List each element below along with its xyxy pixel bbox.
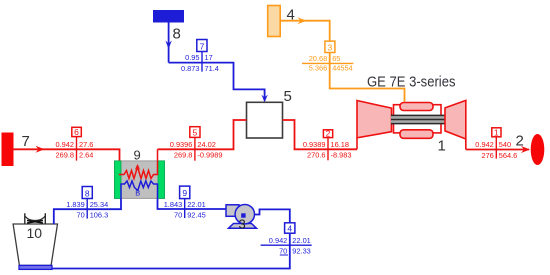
turbine casing (center box) (394, 105, 442, 133)
svg-text:4: 4 (287, 223, 292, 233)
stream label 2 (303, 129, 352, 161)
arrow on stream 8 wire (165, 41, 171, 50)
svg-text:7: 7 (22, 133, 30, 150)
svg-text:16.18: 16.18 (331, 140, 350, 149)
svg-text:27.6: 27.6 (79, 140, 93, 149)
stream label 5 (170, 127, 223, 161)
svg-text:1.839: 1.839 (66, 200, 85, 209)
HX hot side A zigzag (red) (120, 149, 158, 178)
arrow on stream 6 (36, 146, 45, 153)
wire stream 7 to mixer (169, 63, 265, 101)
svg-text:269.8: 269.8 (174, 151, 193, 160)
arrow into mixer (261, 95, 267, 103)
wire stream 4 (pump out to tower) (53, 209, 290, 268)
svg-text:22.01: 22.01 (292, 236, 311, 245)
stream label 1 (475, 128, 517, 160)
heat exchanger 9 body (115, 148, 165, 199)
wire stream 8 (tower to HX cold in) (54, 198, 121, 224)
svg-text:9: 9 (182, 188, 187, 198)
svg-text:540: 540 (499, 140, 511, 149)
svg-text:44554: 44554 (332, 63, 353, 72)
svg-text:1: 1 (494, 128, 499, 138)
svg-text:1: 1 (438, 138, 446, 155)
source 7 (air source, red block) (2, 133, 13, 166)
svg-text:71.4: 71.4 (205, 64, 219, 73)
arrow stream 1 (521, 146, 530, 153)
turbine exhaust leg (465, 139, 467, 150)
svg-text:0.9396: 0.9396 (170, 140, 193, 149)
wire stream 2 (mixer to compressor) (283, 120, 358, 149)
svg-text:269.8: 269.8 (56, 151, 75, 160)
svg-text:GE 7E 3-series: GE 7E 3-series (367, 75, 456, 91)
cooling tower 10 (13, 213, 57, 269)
svg-text:564.6: 564.6 (499, 151, 518, 160)
stream label 3 (302, 41, 353, 72)
source 8 (water makeup source, blue block) (154, 11, 184, 23)
gas turbine 1: compressor inlet leg (356, 138, 358, 149)
svg-text:-8.983: -8.983 (331, 151, 352, 160)
svg-text:70: 70 (76, 210, 84, 219)
svg-text:0.942: 0.942 (56, 140, 75, 149)
svg-text:22.01: 22.01 (187, 200, 206, 209)
svg-text:5.366: 5.366 (309, 63, 328, 72)
combustor can top (400, 103, 433, 111)
stream label 8 (66, 187, 108, 220)
sink 2 (red ellipse) (531, 134, 545, 165)
svg-text:10: 10 (27, 225, 43, 241)
stream label 9 (164, 186, 206, 219)
green bar left (115, 161, 122, 199)
svg-text:92.45: 92.45 (187, 210, 206, 219)
svg-text:270.6: 270.6 (307, 151, 326, 160)
stream label 6 (56, 127, 94, 160)
wire stream 8 drop from source (168, 22, 170, 63)
svg-text:9: 9 (134, 148, 141, 163)
svg-text:276: 276 (481, 151, 493, 160)
svg-text:5: 5 (284, 88, 292, 105)
svg-text:0.873: 0.873 (181, 64, 200, 73)
svg-text:106.3: 106.3 (90, 210, 109, 219)
combustor can bottom (400, 130, 433, 139)
svg-text:2: 2 (516, 133, 524, 150)
svg-text:8: 8 (85, 188, 90, 198)
wire stream 1 (exhaust to sink) (466, 149, 529, 151)
svg-text:2: 2 (326, 129, 331, 139)
svg-text:20.68: 20.68 (309, 54, 328, 63)
arrow on fuel wire (298, 17, 307, 24)
svg-text:24.02: 24.02 (197, 140, 216, 149)
svg-text:65: 65 (332, 54, 340, 63)
svg-text:8: 8 (173, 26, 181, 43)
svg-text:5: 5 (193, 128, 198, 138)
svg-text:0.9389: 0.9389 (303, 140, 326, 149)
svg-text:A: A (135, 163, 140, 172)
wire stream 5 (HX to mixer) (158, 120, 247, 149)
svg-text:0.95: 0.95 (185, 53, 199, 62)
svg-text:70: 70 (279, 246, 287, 255)
mixer 5 (box) (247, 102, 283, 138)
wire stream 9 (HX cold out to pump) (158, 198, 227, 209)
turbine (445, 100, 466, 139)
wire stream 6 (air to HX) (13, 149, 120, 174)
svg-text:-0.9989: -0.9989 (197, 151, 222, 160)
fuel source 4 (orange block) (268, 6, 281, 37)
fan posts (25, 213, 46, 224)
shaft (391, 115, 446, 124)
svg-text:3: 3 (239, 217, 246, 232)
compressor (357, 101, 392, 138)
fan sling arc (25, 216, 46, 221)
HX cold side B zigzag (blue) (121, 181, 158, 198)
svg-text:7: 7 (200, 41, 205, 51)
green bar right (158, 161, 165, 199)
svg-text:3: 3 (328, 43, 333, 53)
svg-text:1.843: 1.843 (164, 200, 183, 209)
svg-text:92.33: 92.33 (292, 246, 311, 255)
stream label 7 (181, 40, 219, 73)
svg-text:B: B (135, 189, 140, 198)
stream label 4 (261, 223, 312, 256)
wire stream 3 (fuel) (280, 21, 404, 102)
svg-text:17: 17 (205, 53, 213, 62)
svg-text:0.942: 0.942 (269, 236, 288, 245)
svg-text:70: 70 (174, 210, 182, 219)
pump 3 (226, 205, 257, 232)
svg-text:6: 6 (74, 127, 79, 137)
svg-text:2.64: 2.64 (79, 151, 93, 160)
fan blades (27, 220, 43, 223)
svg-text:25.34: 25.34 (90, 200, 109, 209)
tower basin (blue base) (19, 265, 52, 269)
svg-text:0.942: 0.942 (475, 140, 494, 149)
